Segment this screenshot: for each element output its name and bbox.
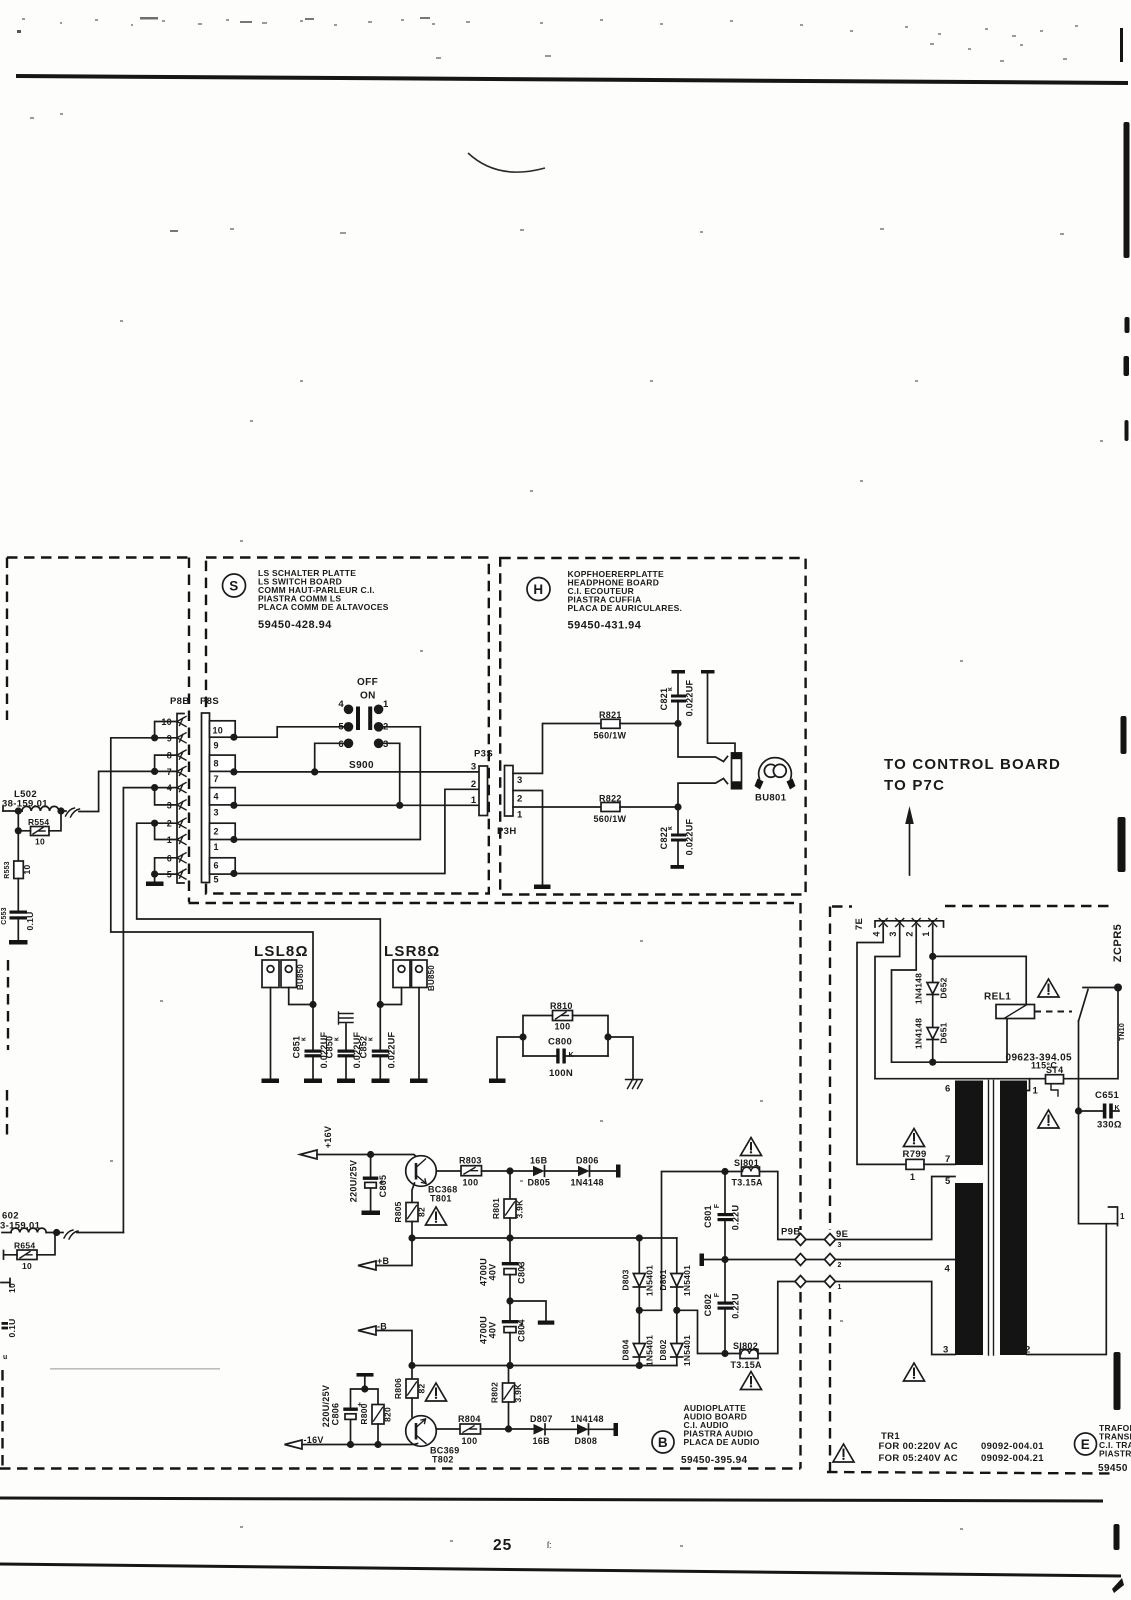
node switch top right [1114, 984, 1122, 992]
diode D803 1N5401 [621, 1238, 655, 1310]
svg-text:REL1: REL1 [984, 992, 1011, 1003]
thermal switch ST4 115C [1031, 1061, 1064, 1097]
svg-text:3: 3 [471, 762, 477, 773]
wire P3H pin1 to R822 [513, 806, 601, 808]
arrow to control board [909, 823, 911, 875]
svg-text:09092-004.01: 09092-004.01 [981, 1441, 1044, 1452]
svg-text:R803: R803 [459, 1156, 482, 1166]
svg-text:1: 1 [383, 699, 389, 710]
svg-text:10: 10 [213, 726, 224, 736]
wire R553 to C553 [17, 879, 19, 911]
wire contact pivot down [1078, 1021, 1080, 1111]
svg-text:R802: R802 [490, 1382, 500, 1403]
svg-text:09092-004.21: 09092-004.21 [981, 1453, 1044, 1464]
svg-text:8: 8 [214, 759, 219, 769]
board E identifier circle [1075, 1433, 1097, 1455]
svg-text:3: 3 [214, 808, 219, 818]
svg-text:5: 5 [338, 722, 344, 733]
connector 9E pin2 diamond [825, 1254, 836, 1266]
transistor T802 BC369 [406, 1416, 460, 1465]
page top rule [16, 76, 1128, 83]
resistor R553 [4, 861, 32, 879]
switch S900 contact 2 [374, 722, 384, 732]
resistor R802 [490, 1366, 524, 1430]
wire SI801 to P9B pin3 [760, 1172, 796, 1240]
speaker connector BU850 right [393, 960, 436, 991]
wire P3H pin3 to R821 [513, 724, 601, 774]
svg-text:1: 1 [1033, 1086, 1039, 1097]
wire REL1 coil to D651 [933, 1019, 1007, 1063]
node C801/C802 mid [721, 1256, 728, 1263]
svg-text:10: 10 [22, 865, 32, 875]
ground C851 [304, 1079, 322, 1084]
node R800 bottom [374, 1441, 381, 1448]
svg-text:82: 82 [417, 1207, 427, 1217]
connector P9B pin2 diamond [795, 1254, 806, 1266]
switch S900 contact 3 [374, 739, 384, 749]
warning triangle R806 [426, 1383, 447, 1401]
connector P8B pin contacts [177, 717, 186, 880]
+16V feed arrow [300, 1150, 317, 1159]
node bus lower left [408, 1362, 415, 1369]
svg-text:T802: T802 [432, 1455, 454, 1465]
wire terminal to jack top [708, 674, 736, 753]
connector P9B pin1 diamond [795, 1276, 806, 1288]
connector 9E pin1 diamond [825, 1276, 836, 1288]
connector P8S body [202, 713, 210, 883]
wire L502 to P8B pin7 [61, 771, 177, 811]
connector P8S pin box 6 [210, 858, 236, 874]
wire BU850L pin2 to C851 [289, 988, 313, 1005]
warning triangle SI801 [741, 1138, 762, 1156]
dashed board box B (audio board) [0, 903, 801, 1469]
speaker connector BU850 left [262, 960, 305, 990]
capacitor C803 [479, 1238, 527, 1301]
svg-text:7: 7 [167, 767, 172, 777]
svg-text:4: 4 [945, 1264, 951, 1275]
capacitor C852 [359, 1005, 397, 1079]
connector 7E bracket [875, 921, 944, 927]
svg-text:R810: R810 [550, 1001, 573, 1011]
wire 7E pin3 to mains line [875, 925, 900, 1079]
wire C800 right to chassis [608, 1037, 633, 1080]
svg-text:1N4148: 1N4148 [571, 1178, 604, 1188]
svg-text:10: 10 [35, 837, 45, 847]
svg-text:C802: C802 [703, 1294, 713, 1317]
dashed board box S (LS switch board) [206, 558, 489, 894]
node P8B pin2 [151, 820, 158, 827]
svg-text:R805: R805 [393, 1201, 403, 1222]
svg-text:LSL8Ω: LSL8Ω [254, 943, 309, 960]
node P8S pin3 [230, 802, 237, 809]
svg-text:BU850: BU850 [427, 965, 436, 991]
svg-text:3: 3 [383, 739, 389, 750]
capacitor C800 [523, 1037, 608, 1080]
svg-text:3.9K: 3.9K [513, 1383, 523, 1403]
svg-text:1: 1 [1120, 1212, 1125, 1221]
svg-text:D804: D804 [621, 1339, 631, 1360]
connector P8B bracket [177, 714, 184, 884]
node R822/C822 [674, 803, 681, 810]
svg-text:5: 5 [214, 875, 219, 885]
svg-text:R801: R801 [491, 1198, 501, 1219]
svg-text:0.022UF: 0.022UF [685, 818, 695, 855]
warning triangle TR1 [833, 1444, 854, 1462]
dashed board box E (transformer board) [827, 906, 1115, 1474]
svg-text:1N4148: 1N4148 [914, 1018, 924, 1049]
node C806/R800 [361, 1385, 368, 1392]
resistor R800 [359, 1389, 393, 1445]
transformer TR1 secondary bar [1000, 1081, 1027, 1356]
node R802 bottom [505, 1425, 512, 1432]
node C651 [1075, 1107, 1082, 1114]
chassis symbol above C850 [339, 1012, 354, 1024]
diode D652 1N4148 [914, 956, 949, 1027]
node R554 left [15, 827, 22, 834]
svg-text:2: 2 [383, 722, 389, 733]
svg-text:100: 100 [555, 1022, 571, 1032]
wire P8B pin3 hook [155, 788, 177, 805]
svg-text:R800: R800 [359, 1403, 369, 1424]
wire 7E pin4 to R799 [857, 925, 906, 1164]
svg-text:0.22U: 0.22U [731, 1293, 741, 1319]
wire 9E pin3 to transformer pin5 [836, 1177, 956, 1240]
dashed link REL1 to contact [1035, 1011, 1073, 1013]
svg-text:C801: C801 [703, 1205, 713, 1228]
svg-text:1N5401: 1N5401 [645, 1335, 655, 1366]
wire P8B pin4 to L602 [123, 788, 177, 1233]
svg-text:25: 25 [493, 1537, 512, 1554]
ground BU850L [262, 1079, 280, 1084]
svg-text:7: 7 [945, 1154, 951, 1165]
svg-text:1: 1 [471, 795, 477, 806]
ground C800 left [489, 1079, 506, 1084]
node bus lower right [636, 1362, 643, 1369]
svg-text:59450-395.94: 59450-395.94 [681, 1455, 748, 1466]
svg-text:0.1U: 0.1U [25, 912, 35, 931]
svg-text:S: S [229, 579, 239, 594]
node P8S pin7 [230, 768, 237, 775]
resistor R799 [903, 1149, 927, 1182]
node P8S pin1 [230, 836, 237, 843]
svg-text:10: 10 [22, 1261, 32, 1271]
svg-text:2: 2 [471, 779, 477, 790]
svg-text:100N: 100N [549, 1068, 573, 1079]
capacitor C804 [479, 1301, 527, 1366]
svg-text:220U/25V: 220U/25V [321, 1385, 331, 1427]
connector P9B pin3 diamond [795, 1234, 806, 1246]
switch S900 contact 6 [344, 739, 354, 749]
svg-text:0.22U: 0.22U [731, 1205, 741, 1231]
svg-text:S900: S900 [349, 760, 374, 771]
wire 7E pin2 to D651 [892, 925, 933, 1062]
wire node down to mains line [1117, 988, 1119, 1079]
connector P3S pin numbers [471, 762, 477, 807]
svg-text:T3.15A: T3.15A [731, 1360, 763, 1370]
ground P8B pin5 [146, 882, 164, 887]
node D651 bottom [929, 1059, 936, 1066]
svg-text:C804: C804 [517, 1319, 527, 1342]
node C805 top [367, 1151, 374, 1158]
connector P3S body [479, 766, 488, 816]
svg-text:P3S: P3S [474, 749, 493, 760]
wire R810 top loop [523, 1016, 608, 1057]
svg-text:κ: κ [301, 1037, 308, 1041]
svg-text:40V: 40V [488, 1322, 498, 1339]
svg-text:C553: C553 [1, 907, 8, 925]
wire R799 to transformer pin7 [924, 1163, 955, 1165]
svg-text:E: E [1081, 1437, 1091, 1452]
ground BU850R [410, 1079, 428, 1084]
svg-text:κ: κ [667, 826, 674, 830]
transformer TR1 core lines [989, 1081, 994, 1356]
node C803/C804 [506, 1297, 513, 1304]
connector 9E pin3 diamond [825, 1234, 836, 1246]
svg-text:1: 1 [214, 842, 219, 852]
svg-text:ST4: ST4 [1046, 1065, 1063, 1075]
resistor R821 [594, 710, 627, 741]
capacitor C806 top bar [357, 1373, 374, 1377]
wire jack ring contact lower [678, 779, 728, 807]
svg-text:F: F [714, 1203, 721, 1208]
svg-text:1N5401: 1N5401 [682, 1335, 692, 1366]
wire P8B pin10 hook [155, 722, 177, 738]
svg-text:PLACA DE AURICULARES.: PLACA DE AURICULARES. [568, 603, 683, 613]
wire P8B pin2 to LSR [137, 823, 381, 1004]
-B arrow [358, 1326, 376, 1335]
wire T802 base to R804 [436, 1428, 460, 1430]
svg-text:R554: R554 [28, 817, 49, 827]
wire R654 left terminal [4, 1251, 18, 1260]
svg-text:κ: κ [368, 1037, 375, 1041]
board B identifier circle [652, 1431, 674, 1453]
wire contact3 to pin4 line [379, 743, 400, 805]
capacitor C850 [325, 1024, 363, 1079]
connector P3H pin numbers [517, 775, 523, 821]
switch S900 contact 1 [374, 705, 384, 715]
transistor T801 BC368 [406, 1156, 458, 1204]
svg-text:59450-428.94: 59450-428.94 [258, 619, 332, 631]
wire mains line to ST4 [875, 1078, 1118, 1080]
wire P3H pin2 to ground [513, 791, 543, 885]
warning triangle transformer [904, 1363, 925, 1381]
svg-text:6: 6 [945, 1084, 951, 1095]
resistor R654 [14, 1241, 37, 1272]
wire P8B pin9 to LSL [111, 738, 313, 1005]
svg-text:T801: T801 [430, 1194, 452, 1204]
board H title text [568, 569, 683, 613]
node L502 right [57, 807, 64, 814]
svg-text:D652: D652 [939, 977, 949, 998]
terminal bar mid [700, 1254, 705, 1267]
connector 7E pin crosses [879, 919, 937, 927]
wire C806 bar stem [364, 1377, 366, 1389]
wire P8S pin6 to P3S pin2 [234, 789, 479, 873]
connector P8S pin box 2 [210, 823, 236, 839]
node bus upper right [636, 1234, 643, 1241]
resistor R803 [459, 1156, 482, 1188]
diode D808 1N4148 [571, 1414, 604, 1446]
wire BU850R pin2 to ground [418, 988, 420, 1079]
resistor R810 [550, 1001, 573, 1032]
wire L602 to P8B pin4 line [46, 1232, 123, 1234]
+B arrow [358, 1261, 376, 1270]
node P8B pin9 [151, 734, 158, 741]
wire P8S pin10 to switch contact5 [234, 727, 344, 737]
capacitor C822 [659, 807, 695, 869]
node C800 left [519, 1033, 526, 1040]
wire T801 base to R803 [436, 1170, 461, 1172]
diode D651 1N4148 [914, 1018, 949, 1062]
wire -B to bus lower [376, 1331, 412, 1366]
svg-text:3: 3 [838, 1242, 842, 1249]
wire R804 to D807 [481, 1428, 534, 1430]
resistor R804 [458, 1414, 481, 1446]
capacitor C802 [703, 1260, 741, 1354]
diode D805 16B [528, 1156, 551, 1188]
wire 7E pin1 to D652 [932, 925, 934, 956]
wire R805 to rail [411, 1222, 413, 1239]
connector P3H body [505, 766, 514, 817]
svg-text:3: 3 [888, 931, 898, 936]
svg-text:4: 4 [338, 699, 344, 710]
diode D802 1N5401 [658, 1310, 692, 1366]
node bus upper mid [506, 1234, 513, 1241]
wire contact6 to pin8 line [315, 743, 349, 772]
node C806 bottom [347, 1441, 354, 1448]
svg-text:0.022UF: 0.022UF [387, 1031, 397, 1068]
wire D652 to REL1 coil [933, 956, 1026, 1004]
wire D808 to output terminal [589, 1428, 614, 1430]
svg-text:R654: R654 [14, 1241, 35, 1251]
capacitor C805 [349, 1155, 389, 1211]
fuse SI802 [731, 1341, 763, 1370]
wire P8B pin6 hook [155, 858, 177, 874]
svg-text:6: 6 [338, 739, 344, 750]
svg-text:PLACA COMM DE ALTAVOCES: PLACA COMM DE ALTAVOCES [258, 602, 389, 612]
svg-text:FOR 05:240V AC: FOR 05:240V AC [879, 1453, 959, 1464]
terminal bar headphone tip [701, 670, 715, 674]
svg-text:BU801: BU801 [755, 793, 787, 804]
svg-text:220U/25V: 220U/25V [349, 1160, 359, 1202]
svg-text:82: 82 [417, 1384, 427, 1394]
svg-text:C805: C805 [378, 1175, 388, 1198]
svg-text:u: u [3, 1354, 7, 1361]
svg-text:330Ω: 330Ω [1097, 1120, 1122, 1131]
svg-text:F: F [714, 1292, 721, 1297]
node R821/C821 [674, 720, 681, 727]
svg-text:820: 820 [383, 1407, 393, 1422]
dashed board box A (speaker switch carrier, left) [3, 558, 190, 1469]
wire D807 to D808 [545, 1428, 577, 1430]
svg-text:D805: D805 [528, 1178, 551, 1188]
diode D801 1N5401 [658, 1238, 692, 1310]
ground P3H pin2 [534, 885, 551, 890]
svg-text:1N4148: 1N4148 [914, 973, 924, 1004]
svg-text:4: 4 [872, 931, 882, 936]
wire D803 mid to SI801 net [639, 1172, 741, 1311]
svg-text:7E: 7E [854, 918, 865, 930]
svg-text:D807: D807 [530, 1414, 553, 1424]
wire P8S pin8 to P3S pin3 [234, 771, 479, 773]
label TR1 variants [879, 1431, 1045, 1464]
svg-text:P8S: P8S [200, 696, 219, 707]
wire transformer pin1 to mains line [1027, 1079, 1030, 1091]
svg-text:K: K [569, 1052, 574, 1059]
svg-text:C806: C806 [331, 1403, 341, 1426]
svg-text:-16V: -16V [304, 1435, 324, 1445]
svg-text:ſ:: ſ: [547, 1540, 552, 1550]
capacitor C553 0.1U [1, 907, 35, 930]
scan arc artifact [468, 153, 545, 172]
svg-text:D806: D806 [576, 1156, 599, 1166]
wire mid to ground [510, 1301, 546, 1321]
svg-text:P3H: P3H [497, 826, 517, 837]
svg-text:3.9K: 3.9K [515, 1199, 525, 1219]
wire P8S pin2 to switch contact2 [234, 727, 420, 840]
svg-text:D801: D801 [658, 1269, 668, 1290]
diode D806 1N4148 [571, 1156, 604, 1188]
connector P8B pin numbers [161, 717, 172, 880]
diode D807 16B [530, 1414, 553, 1446]
wire R821 to jack [620, 723, 678, 725]
switch S900 contact 5 [344, 722, 354, 732]
wire P8S pin4 to P3S pin1 [234, 804, 479, 806]
node D652 top [929, 953, 936, 960]
wire R654 right to L602 node [37, 1233, 55, 1255]
capacitor C801 [703, 1172, 741, 1260]
svg-text:D808: D808 [575, 1436, 598, 1446]
wire break symbol [66, 808, 80, 817]
node C802 bottom [721, 1350, 728, 1357]
ground C850 [337, 1079, 355, 1084]
wire contact to right node [1083, 987, 1118, 989]
svg-text:16B: 16B [533, 1436, 551, 1446]
wire mid terminal to P9B pin2 [704, 1259, 795, 1261]
svg-text:1: 1 [921, 931, 931, 936]
wire 9E pin2 to transformer pin4 [836, 1259, 956, 1261]
svg-text:1N4148: 1N4148 [571, 1414, 604, 1424]
svg-text:40V: 40V [488, 1264, 498, 1281]
svg-text:0.022UF: 0.022UF [685, 679, 695, 716]
diode D804 1N5401 [621, 1310, 655, 1366]
wire +B rail bus upper [412, 1237, 677, 1239]
svg-text:7: 7 [214, 774, 219, 784]
headphone icon BU801 [755, 758, 796, 790]
wire R803 to D805 [482, 1170, 534, 1172]
node switch contact6 tap [311, 768, 318, 775]
capacitor C806 [321, 1385, 365, 1445]
resistor R801 [491, 1171, 525, 1238]
svg-text:560/1W: 560/1W [594, 731, 627, 741]
-16V feed arrow [285, 1440, 303, 1449]
warning triangle SI802 [741, 1372, 762, 1390]
connector 7E pin numbers [872, 931, 932, 936]
node R801 top [506, 1167, 513, 1174]
switch S900 pole bars [356, 707, 360, 731]
svg-text:9: 9 [214, 741, 219, 751]
svg-text:9E: 9E [836, 1229, 848, 1240]
warning triangle C651 [1038, 1110, 1059, 1128]
wire D801 mid to SI802 net [677, 1310, 740, 1353]
warning triangle REL1 [1038, 979, 1059, 997]
right edge scan bars [1112, 28, 1130, 1593]
node P8S pin5 [230, 870, 237, 877]
wire T801 emitter down [412, 1183, 415, 1203]
dashed board box H (headphone board) [500, 558, 805, 895]
svg-text:ON: ON [360, 691, 376, 702]
switch S900 contact 4 [344, 705, 354, 715]
